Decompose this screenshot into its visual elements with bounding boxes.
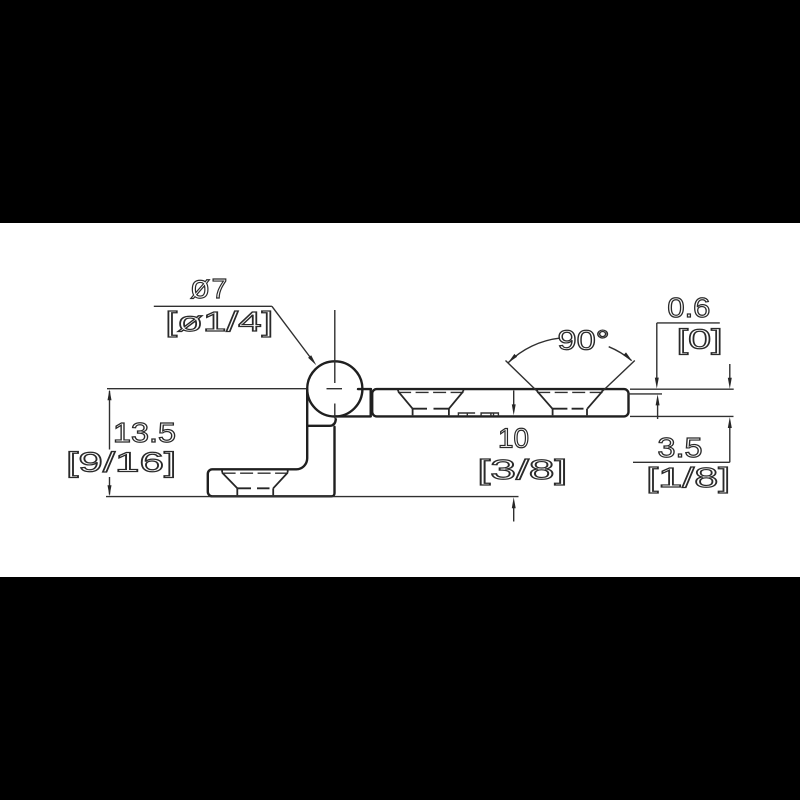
dim 13.5 top arrowhead bbox=[108, 389, 112, 400]
dim 13.5 bottom arrowhead bbox=[108, 485, 112, 496]
dim 3.5 lower arrowhead bbox=[728, 417, 732, 428]
plate hole2 right stub bbox=[601, 390, 603, 392]
plate hole1 right stub bbox=[462, 390, 464, 392]
foot hole right wall bbox=[272, 488, 274, 495]
90 deg arc left arrowhead bbox=[508, 354, 517, 363]
pin vertical centerline upper segment bbox=[334, 310, 336, 383]
foot bottom extension line bbox=[106, 496, 519, 498]
dim 10 lower arrowhead bbox=[512, 497, 516, 508]
dim 0.6 upper arrowhead bbox=[655, 378, 659, 389]
foot countersink hidden top dashed line bbox=[223, 472, 288, 474]
right leaf plate (rounded rectangle) bbox=[372, 389, 628, 416]
svg-text:[1/8]: [1/8] bbox=[646, 462, 730, 493]
dim 10 lower arrow line bbox=[513, 507, 515, 522]
dia 7 leader diagonal bbox=[272, 306, 310, 357]
svg-text:[9/16]: [9/16] bbox=[66, 447, 176, 478]
knuckle neck top edge (right) bbox=[358, 388, 371, 390]
dim 10 upper arrowhead bbox=[512, 404, 516, 415]
plate hole1 hidden top dashed line bbox=[398, 391, 463, 393]
white sheet band bbox=[0, 223, 800, 577]
hidden feature mark B between holes bbox=[481, 413, 498, 416]
dim 3.5 lower arrow line bbox=[729, 427, 731, 462]
dim 3.5 shelf line bbox=[633, 461, 730, 463]
dim 0.6 lower arrowhead bbox=[656, 394, 660, 405]
dim 13.5 dimension line lower segment bbox=[109, 477, 111, 495]
knuckle/arm junction line (left) bbox=[307, 419, 336, 426]
hidden feature mark A between holes bbox=[458, 413, 475, 416]
dim 13.5 dimension line upper segment bbox=[109, 391, 111, 450]
dim 0.6 left leg bbox=[656, 323, 658, 379]
plate hole2 right wall bbox=[586, 409, 588, 416]
knuckle/leaf junction vertical line bbox=[370, 390, 372, 417]
plate bottom extension line C bbox=[630, 415, 734, 417]
dim 3.5 upper arrow line bbox=[729, 364, 731, 379]
pin center mark horizontal dash bbox=[327, 388, 343, 390]
dim 0.6 shelf line bbox=[657, 322, 720, 324]
plate hole2 left slope bbox=[537, 391, 552, 408]
plate hole2 hidden top dashed line bbox=[537, 391, 602, 393]
svg-text:0.6: 0.6 bbox=[667, 292, 710, 323]
plate hole2 left slope extended for 90 deg dimension bbox=[506, 361, 538, 392]
hinge knuckle circle bbox=[307, 361, 362, 416]
foot countersink left slope bbox=[222, 473, 237, 489]
dia 7 leader arrowhead bbox=[308, 355, 316, 365]
svg-text:10: 10 bbox=[498, 423, 529, 454]
dim 0.6 lower arrow line bbox=[657, 404, 659, 419]
plate hole1 right slope bbox=[449, 391, 463, 408]
svg-text:3.5: 3.5 bbox=[658, 432, 703, 463]
foot countersink left stub bbox=[221, 470, 223, 472]
foot countersink bottom edge dashes bbox=[237, 487, 269, 489]
plate hole2 left stub bbox=[536, 390, 538, 392]
left leaf L-bracket outline bbox=[208, 390, 335, 497]
90 deg dimension arc left segment bbox=[508, 338, 560, 363]
dia 7 leader shelf bbox=[154, 305, 272, 307]
plate hole1 right wall bbox=[448, 409, 450, 416]
svg-text:[ø1/4]: [ø1/4] bbox=[165, 306, 273, 337]
plate hole1 left slope bbox=[398, 391, 413, 408]
foot hole left wall bbox=[236, 488, 238, 495]
dim 3.5 upper arrowhead bbox=[728, 378, 732, 389]
plate top extension line A bbox=[630, 388, 734, 390]
knuckle neck bottom edge bbox=[336, 415, 371, 417]
foot countersink right slope bbox=[273, 473, 288, 489]
svg-text:ø7: ø7 bbox=[190, 268, 227, 305]
plate hole1 left stub bbox=[397, 390, 399, 392]
svg-text:90°: 90° bbox=[558, 325, 610, 356]
foot countersink right stub bbox=[287, 470, 289, 472]
pin vertical centerline lower segment bbox=[334, 404, 336, 419]
svg-text:[0]: [0] bbox=[677, 323, 723, 354]
svg-text:13.5: 13.5 bbox=[113, 417, 176, 448]
svg-text:[3/8]: [3/8] bbox=[477, 454, 567, 485]
plate hole1 bottom edge dashes bbox=[413, 408, 449, 410]
dim 10 upper arrow line bbox=[513, 391, 515, 407]
90 deg arc right arrowhead bbox=[623, 352, 632, 361]
horizontal centerline through pin (also 13.5 top extension) bbox=[107, 388, 307, 390]
plate hole1 left wall bbox=[412, 409, 414, 416]
datum extension line B bbox=[628, 393, 662, 395]
plate hole2 left wall bbox=[552, 409, 554, 416]
90 deg dimension arc right segment bbox=[609, 347, 632, 361]
plate hole2 right slope bbox=[587, 391, 602, 408]
plate hole2 bottom edge dashes bbox=[552, 408, 583, 410]
plate hole2 right slope extended for 90 deg dimension bbox=[602, 361, 634, 392]
